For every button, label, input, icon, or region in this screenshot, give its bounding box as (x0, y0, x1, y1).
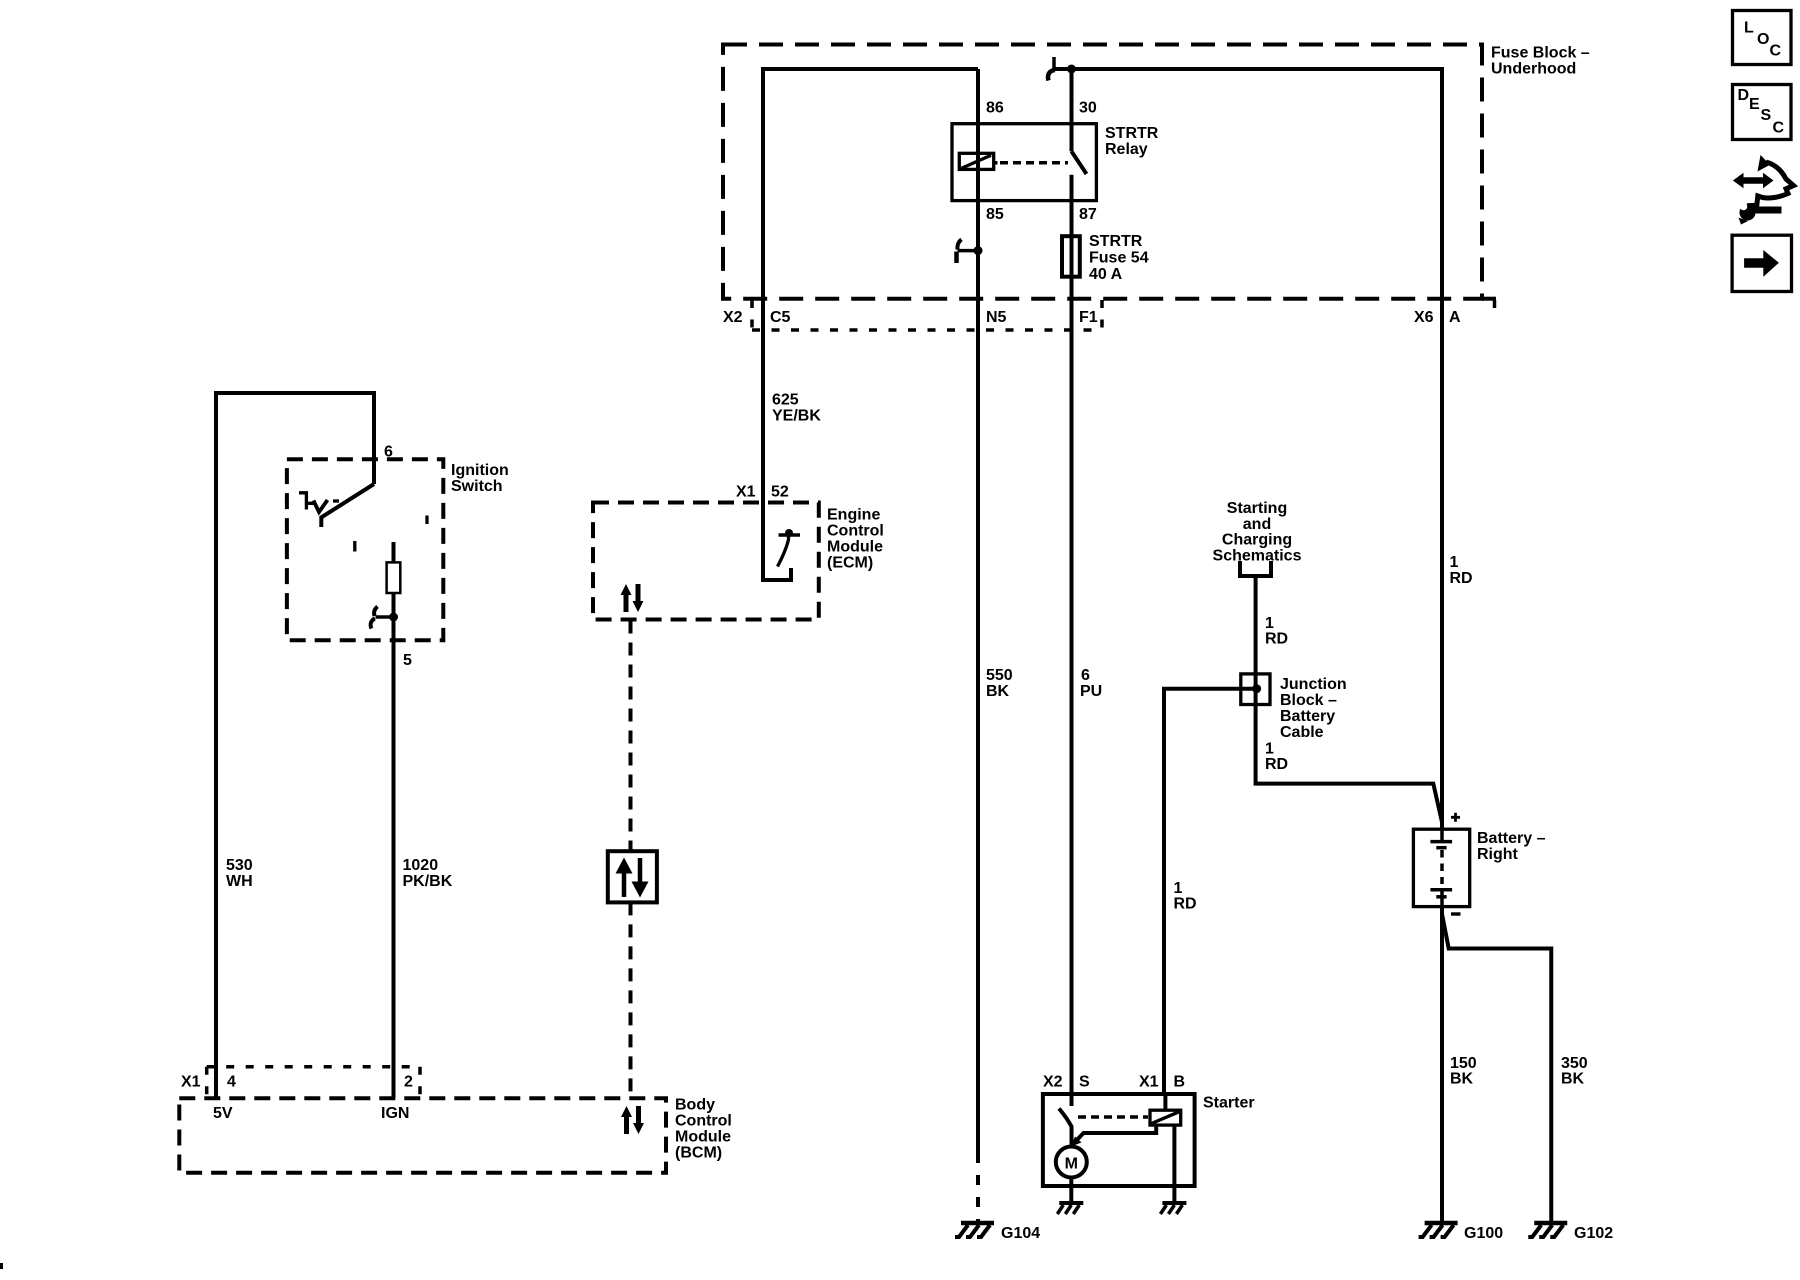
wire: relay 87 through fuse to F1 (1070, 201, 1074, 330)
LOC icon box (1733, 11, 1792, 65)
svg-text:N5: N5 (986, 309, 1007, 326)
indicator box (608, 851, 657, 902)
starter solenoid ground wire (1172, 1125, 1176, 1203)
battery plate long top (1430, 840, 1452, 844)
svg-text:Block –: Block – (1280, 692, 1337, 709)
svg-text:Engine: Engine (827, 507, 880, 524)
svg-text:STRTR: STRTR (1089, 233, 1143, 250)
svg-text:M: M (1065, 1156, 1078, 1173)
ignition clip (376, 615, 394, 619)
arrowhead into motor (1071, 1137, 1082, 1147)
svg-text:BK: BK (986, 683, 1010, 700)
BCM dashed box (179, 1098, 666, 1172)
svg-text:150: 150 (1450, 1055, 1477, 1072)
clip at N5 (958, 249, 979, 253)
svg-text:BK: BK (1561, 1071, 1585, 1088)
svg-text:Relay: Relay (1105, 141, 1148, 158)
svg-text:350: 350 (1561, 1055, 1588, 1072)
svg-text:(BCM): (BCM) (675, 1145, 722, 1162)
svg-text:Schematics: Schematics (1213, 548, 1302, 565)
wire: F1 6 PU down to starter S (1070, 330, 1074, 1094)
svg-text:YE/BK: YE/BK (772, 408, 821, 425)
wire: pin30 feed from top node to X6 A (1053, 69, 1442, 299)
svg-text:STRTR: STRTR (1105, 125, 1159, 142)
svg-text:Body: Body (675, 1097, 715, 1114)
svg-text:F1: F1 (1079, 309, 1098, 326)
svg-text:Battery: Battery (1280, 708, 1335, 725)
node at ignition clip (389, 613, 398, 622)
svg-text:Starter: Starter (1203, 1095, 1255, 1112)
indicator arrows (622, 872, 627, 897)
connector X6 tick (1493, 300, 1497, 313)
svg-text:87: 87 (1079, 206, 1097, 223)
svg-text:RD: RD (1450, 570, 1473, 587)
relay linkage dashed (994, 161, 998, 165)
svg-text:E: E (1749, 96, 1760, 113)
svg-text:X1: X1 (181, 1074, 201, 1091)
svg-text:D: D (1738, 87, 1750, 104)
node in junction block (1252, 684, 1261, 693)
svg-text:O: O (1757, 31, 1769, 48)
svg-text:G102: G102 (1574, 1225, 1613, 1242)
svg-text:52: 52 (771, 484, 789, 501)
ECM internal hook wire (763, 503, 791, 580)
ignition detent mark (299, 492, 314, 510)
wire: junction block left to starter B (1164, 689, 1257, 1094)
svg-text:and: and (1243, 516, 1271, 533)
wire: relay pin86 drop (976, 69, 980, 124)
svg-text:G100: G100 (1464, 1225, 1503, 1242)
relay switch blade (1072, 151, 1087, 174)
svg-text:A: A (1449, 309, 1461, 326)
wire: junction block through to bend (1254, 674, 1258, 705)
ground G102 (1528, 1223, 1567, 1237)
svg-text:Starting: Starting (1227, 500, 1287, 517)
svg-text:Module: Module (827, 539, 883, 556)
svg-text:Fuse 54: Fuse 54 (1089, 250, 1149, 267)
svg-text:X1: X1 (736, 484, 756, 501)
ground G104 (955, 1223, 994, 1237)
svg-text:85: 85 (986, 206, 1004, 223)
starter motor circle (1056, 1147, 1087, 1178)
svg-text:Right: Right (1477, 846, 1519, 863)
dashed control wire ECM to indicator box (629, 621, 633, 852)
ignition detent dash (333, 499, 339, 502)
svg-text:BK: BK (1450, 1071, 1474, 1088)
svg-text:Ignition: Ignition (451, 462, 509, 479)
svg-text:4: 4 (227, 1074, 236, 1091)
starter solenoid coil box (1150, 1110, 1181, 1125)
svg-text:(ECM): (ECM) (827, 555, 873, 572)
node at relay 30 feed (1067, 65, 1076, 74)
ignition resistor wire bottom through clip node (392, 593, 396, 1098)
dashed control wire to BCM (629, 902, 633, 1098)
wire: 550 BK dashed tail to G104 (976, 1163, 980, 1223)
wire: 5V loop to ignition switch pin 6 (216, 393, 374, 1098)
fuse block bottom dash extension to X6 tick (1482, 297, 1496, 301)
wire: X6 A down to battery + (1440, 299, 1444, 830)
wire: C5 to ECM X1-52 (761, 299, 765, 503)
battery plate long bottom (1430, 888, 1452, 892)
BCM arrows symbol (621, 1106, 644, 1134)
starter B wire into solenoid (1163, 1094, 1167, 1110)
battery internal wire bottom (1440, 890, 1444, 907)
relay coil box (959, 153, 993, 169)
svg-text:S: S (1079, 1074, 1090, 1091)
svg-text:RD: RD (1265, 756, 1288, 773)
wire: C5 loop up and over to relay 86 (763, 69, 978, 299)
svg-text:IGN: IGN (381, 1105, 409, 1122)
svg-text:1: 1 (1265, 741, 1274, 758)
battery plate short top (1436, 846, 1446, 850)
svg-text:C: C (1770, 43, 1782, 60)
svg-text:1: 1 (1265, 615, 1274, 632)
ignition stray dash mid (353, 541, 356, 552)
clip on top feed wire (1052, 57, 1056, 69)
svg-text:G104: G104 (1001, 1225, 1040, 1242)
svg-text:WH: WH (226, 873, 253, 890)
svg-text:C: C (1773, 120, 1785, 137)
svg-text:X1: X1 (1139, 1074, 1159, 1091)
svg-text:RD: RD (1174, 896, 1197, 913)
wire: relay 85 to N5 (976, 201, 980, 330)
svg-text:X2: X2 (723, 309, 743, 326)
junction block - battery cable (1241, 674, 1270, 705)
ignition resistor wire top (392, 542, 396, 562)
relay coil wire through (976, 124, 980, 201)
svg-text:1020: 1020 (403, 857, 439, 874)
starter box (1043, 1094, 1195, 1186)
svg-text:625: 625 (772, 392, 799, 409)
svg-text:550: 550 (986, 667, 1013, 684)
connector X2 strip (C5..F1) (752, 300, 1102, 330)
svg-text:L: L (1744, 20, 1754, 37)
svg-text:Underhood: Underhood (1491, 61, 1576, 78)
ignition switch blade (321, 484, 374, 527)
wire: split to G102 (1442, 913, 1551, 1223)
svg-text:1: 1 (1174, 880, 1183, 897)
relay pin87 stub (1070, 175, 1074, 201)
DESC icon box (1733, 85, 1792, 140)
svg-text:6: 6 (1081, 667, 1090, 684)
navigation arrows icon (1733, 155, 1794, 225)
ignition stray dash right (425, 516, 428, 525)
svg-text:Control: Control (827, 523, 884, 540)
label - (1451, 912, 1461, 915)
ECM internal clip terminal (778, 534, 789, 567)
svg-text:S: S (1761, 107, 1772, 124)
svg-text:30: 30 (1079, 100, 1097, 117)
starter solenoid ground (1160, 1203, 1186, 1214)
svg-text:530: 530 (226, 857, 253, 874)
starter solenoid output wire to motor (1075, 1125, 1156, 1142)
svg-text:PK/BK: PK/BK (403, 873, 453, 890)
relay STRTR box (952, 124, 1096, 201)
svg-text:5V: 5V (213, 1105, 233, 1122)
label + (1451, 813, 1460, 822)
svg-text:Module: Module (675, 1129, 731, 1146)
svg-text:2: 2 (404, 1074, 413, 1091)
svg-text:RD: RD (1265, 631, 1288, 648)
node at N5 clip (974, 246, 983, 255)
battery plate short bottom (1436, 895, 1446, 899)
starter solenoid dashed linkage (1078, 1115, 1148, 1119)
BCM connector strip X1 (207, 1067, 420, 1098)
battery internal wire top (1440, 829, 1444, 841)
svg-text:B: B (1174, 1074, 1186, 1091)
svg-text:Fuse Block –: Fuse Block – (1491, 45, 1590, 62)
relay pin30 stub (1070, 69, 1074, 151)
svg-text:C5: C5 (770, 309, 791, 326)
battery - right box (1413, 829, 1469, 906)
wire: battery - down to G100 (1440, 907, 1444, 1223)
ECM arrows symbol (621, 584, 644, 612)
svg-text:Control: Control (675, 1113, 732, 1130)
ignition resistor (387, 562, 401, 593)
page edge artifact dot (0, 1263, 3, 1269)
svg-text:Battery –: Battery – (1477, 830, 1546, 847)
svg-text:86: 86 (986, 100, 1004, 117)
svg-text:PU: PU (1080, 683, 1102, 700)
ground G100 (1419, 1223, 1458, 1237)
svg-text:Charging: Charging (1222, 532, 1292, 549)
forward arrow icon box (1732, 235, 1791, 291)
svg-text:Cable: Cable (1280, 724, 1324, 741)
starter motor ground wire (1069, 1178, 1073, 1204)
svg-text:X2: X2 (1043, 1074, 1063, 1091)
starter switch blade (1059, 1109, 1072, 1146)
off-page bracket (1240, 561, 1271, 576)
svg-text:Switch: Switch (451, 478, 503, 495)
fuse block - underhood dashed box (723, 45, 1482, 299)
ECM dashed box (593, 503, 819, 620)
svg-text:Junction: Junction (1280, 676, 1347, 693)
wire: bracket to junction block (1254, 576, 1258, 674)
fuse STRTR 40A (1062, 236, 1080, 277)
relay coil diagonal (962, 155, 992, 168)
ignition detent v (313, 500, 327, 512)
starter motor ground (1057, 1203, 1083, 1214)
starter S stub (1070, 1094, 1074, 1106)
ignition switch dashed box (287, 459, 443, 640)
starter solenoid diagonal (1152, 1112, 1180, 1124)
wire: junction block down then right to battery + (1256, 705, 1442, 823)
svg-text:1: 1 (1450, 554, 1459, 571)
svg-text:X6: X6 (1414, 309, 1434, 326)
svg-text:40 A: 40 A (1089, 266, 1123, 283)
svg-text:5: 5 (403, 652, 412, 669)
wire: N5 550 BK down (976, 330, 980, 1163)
battery mid dashed (1440, 850, 1444, 884)
